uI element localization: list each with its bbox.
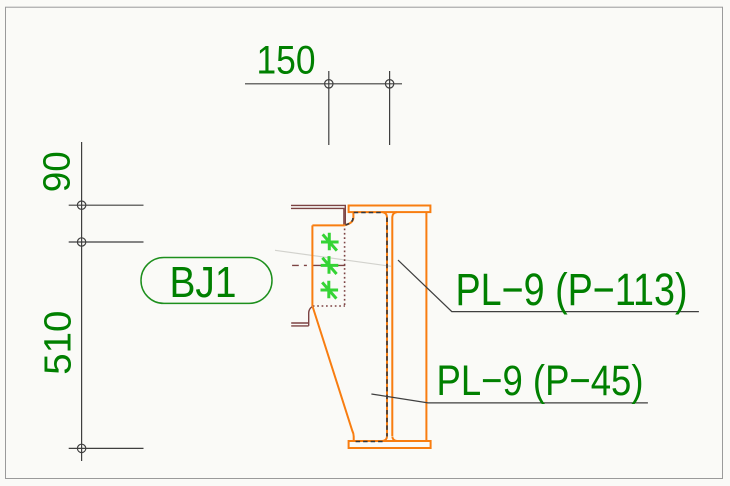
svg-text:90: 90 [36, 151, 78, 192]
beam top flange (orange) [349, 206, 431, 213]
leader line for PL-9 (P-113) [398, 260, 699, 312]
leader line for PL-9 (P-45) [371, 394, 648, 403]
beam hidden flange edge lower (maroon lower line with scallop) [291, 307, 312, 326]
beam hidden flange edge upper (maroon outer) [291, 205, 345, 225]
hidden plate edge dotted horizontal (maroon) [313, 305, 345, 307]
dimension 150 tick circle right [385, 80, 393, 88]
hidden plate edge dotted vertical (maroon) [344, 229, 346, 306]
dimension 150 horizontal line [245, 83, 402, 85]
centerline solid across plate (maroon) [313, 264, 346, 266]
beam flange tip edge (orange vertical right) [425, 212, 427, 441]
bracket plate left edge (orange) [311, 225, 313, 306]
web fillet top left (orange) [383, 212, 388, 217]
beam web left line (orange) [386, 217, 388, 436]
left dimension tick line bottom [69, 447, 144, 449]
weld mark asterisk 1 (green) [321, 233, 339, 251]
left dimension tick line top [69, 204, 144, 206]
svg-text:150: 150 [257, 38, 316, 82]
svg-text:BJ1: BJ1 [170, 258, 237, 307]
svg-text:510: 510 [37, 311, 79, 375]
left dimension tick line middle [69, 241, 144, 243]
weld access scallop (orange) [345, 212, 353, 225]
leader from BJ1 balloon (light gray) [275, 250, 391, 266]
left vertical dimension line [81, 142, 83, 461]
hidden line dashed above bottom flange (black) [356, 441, 383, 443]
web fillet bottom left (orange) [383, 436, 388, 441]
svg-text:PL−9 (P−45): PL−9 (P−45) [437, 357, 644, 405]
centerline dash-dot (maroon) [292, 264, 307, 266]
dimension 150 extension line left [328, 71, 330, 145]
beam hidden flange edge upper (maroon inner) [291, 208, 344, 225]
beam bottom flange (orange) [349, 441, 431, 448]
left dimension tick circle top [77, 201, 85, 209]
web fillet bottom right (orange) [392, 436, 397, 441]
bracket plate top edge (orange) [312, 224, 344, 226]
svg-text:PL−9 (P−113): PL−9 (P−113) [456, 264, 688, 315]
hidden line dashed on scallop (black) [345, 218, 353, 225]
gusset plate tapered edge (orange) [313, 307, 354, 442]
beam hidden flange edge lower (maroon upper line) [291, 322, 309, 324]
weld mark asterisk 3 (green) [321, 281, 339, 299]
hidden line dashed on web (black) [386, 218, 388, 437]
dimension 150 extension line right [389, 71, 391, 145]
beam web right line (orange) [391, 217, 393, 436]
left dimension tick circle bottom [77, 444, 85, 452]
BJ1 balloon outline [141, 258, 272, 304]
web fillet top right (orange) [392, 212, 397, 217]
left dimension tick circle middle [77, 238, 85, 246]
hidden line dashed under top flange (black) [354, 212, 383, 214]
weld mark asterisk 2 (green) [321, 256, 339, 274]
dimension 150 tick circle left [325, 80, 333, 88]
